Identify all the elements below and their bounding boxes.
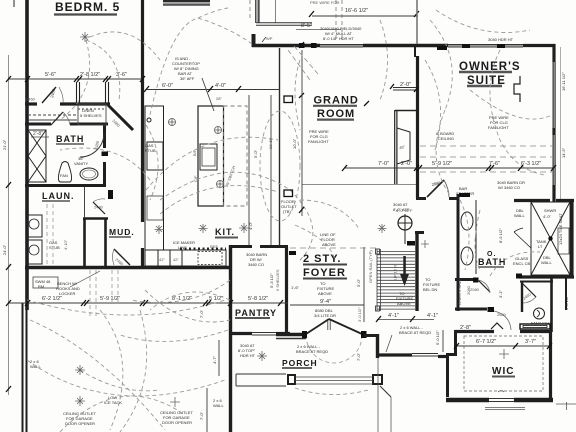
svg-text:9'-4": 9'-4" <box>320 299 331 305</box>
dim: kitchen top <box>146 89 280 91</box>
svg-text:6'-0": 6'-0" <box>162 83 173 89</box>
svg-text:ENCL CB: ENCL CB <box>513 261 531 266</box>
svg-text:42": 42" <box>159 257 165 262</box>
wall: bath laundry divider <box>25 184 106 187</box>
mud dashed extension verticals <box>47 204 118 316</box>
owners shower <box>514 202 570 275</box>
wall: owners suite top right <box>523 44 555 47</box>
svg-text:3040 HDR HT: 3040 HDR HT <box>488 37 514 42</box>
svg-text:HDR HT: HDR HT <box>240 353 256 358</box>
svg-text:2080: 2080 <box>470 287 480 292</box>
extra kitchen arcs <box>146 125 278 214</box>
svg-text:24'-0": 24'-0" <box>2 244 7 255</box>
svg-text:4'-10": 4'-10" <box>63 239 68 250</box>
dim: top area <box>312 15 418 17</box>
svg-text:3'-0 1/2": 3'-0 1/2" <box>564 295 569 310</box>
svg-text:4'-7": 4'-7" <box>212 355 217 364</box>
svg-text:2'-8": 2'-8" <box>460 325 471 331</box>
wall: pantry foyer divider <box>279 48 281 246</box>
svg-text:WALL: WALL <box>213 403 225 408</box>
svg-text:WALL: WALL <box>541 260 553 265</box>
fireplace media wall <box>394 110 396 184</box>
kitchen range counter left <box>145 106 164 250</box>
svg-text:3'-7": 3'-7" <box>525 339 536 345</box>
backsplash tick row kitchen <box>180 248 226 250</box>
small window blocks SSS <box>108 44 550 329</box>
svg-text:4'-1": 4'-1" <box>427 313 438 319</box>
svg-text:5 SHELVES: 5 SHELVES <box>275 269 280 291</box>
stoop below wic door <box>485 407 525 409</box>
bath fixtures: shower <box>28 130 46 182</box>
wall: bedroom bottom <box>25 102 37 105</box>
svg-text:WALL: WALL <box>514 213 526 218</box>
svg-text:(TB): (TB) <box>283 209 291 214</box>
dashed roof diagonals <box>288 46 318 80</box>
porch columns and steps <box>236 358 391 432</box>
svg-text:5'-9 1/2": 5'-9 1/2" <box>100 296 120 302</box>
svg-text:3/4 LITE DR: 3/4 LITE DR <box>314 313 336 318</box>
linen closet top <box>28 104 106 125</box>
owners bath vanity <box>461 200 476 274</box>
svg-text:WIC: WIC <box>492 366 514 377</box>
wall: grand room top with windows <box>285 44 320 48</box>
svg-text:DOOR OPENER: DOOR OPENER <box>162 420 192 425</box>
electrical symbols kitchen <box>169 119 224 188</box>
svg-text:GRAND: GRAND <box>314 95 359 107</box>
svg-text:8'-0 1/8" HDR HT: 8'-0 1/8" HDR HT <box>323 36 354 41</box>
dim: owners suite <box>345 167 554 169</box>
wall: right exterior bath block <box>570 199 573 277</box>
swm box <box>33 277 58 288</box>
svg-text:8'-5": 8'-5" <box>301 23 312 29</box>
svg-text:FAN/LIGHT: FAN/LIGHT <box>531 321 552 326</box>
svg-text:ABOVE: ABOVE <box>322 242 336 247</box>
svg-text:3'-6": 3'-6" <box>116 72 127 78</box>
svg-text:8'-0" AFF: 8'-0" AFF <box>393 207 410 212</box>
svg-text:STUB: STUB <box>145 148 156 153</box>
svg-text:2'-0": 2'-0" <box>401 161 412 167</box>
svg-text:W/ 3460 CO: W/ 3460 CO <box>498 185 520 190</box>
wic dashed shelves <box>464 336 543 391</box>
svg-text:5'-8 1/2": 5'-8 1/2" <box>248 296 268 302</box>
svg-text:PORCH: PORCH <box>282 358 318 368</box>
svg-text:2'-8 1/2": 2'-8 1/2" <box>80 72 100 78</box>
suite niche <box>514 76 520 102</box>
laundry door <box>93 202 105 214</box>
wall: owners bath left <box>457 194 460 311</box>
bath entry door arc <box>80 133 104 157</box>
stairs up arrow <box>400 256 409 286</box>
svg-text:2'-0": 2'-0" <box>400 82 411 88</box>
dim: wic <box>457 345 550 347</box>
svg-text:7'-0": 7'-0" <box>378 161 389 167</box>
door: front double <box>306 319 329 334</box>
wall: grand owners divider <box>416 56 419 198</box>
dim: foyer <box>290 304 364 306</box>
svg-text:36" AFF: 36" AFF <box>180 76 195 81</box>
svg-text:VANITY: VANITY <box>74 161 88 166</box>
wall: mud closet verticals <box>83 218 86 266</box>
svg-text:2460: 2460 <box>26 97 36 102</box>
svg-text:4'-0": 4'-0" <box>248 221 253 230</box>
svg-text:STUB: STUB <box>49 245 60 250</box>
wall: garage 2x6 left <box>22 303 24 432</box>
svg-text:42": 42" <box>173 257 179 262</box>
svg-text:FAN/LIGHT: FAN/LIGHT <box>488 125 509 130</box>
owners bath fan circle <box>534 308 545 319</box>
svg-text:SHWR: SHWR <box>544 208 556 213</box>
sparkle kit corner <box>239 223 249 233</box>
svg-text:FOYER: FOYER <box>303 267 346 279</box>
floor outlet boxes <box>284 96 293 103</box>
svg-text:MUD.: MUD. <box>109 227 135 237</box>
svg-text:5 SHELVES: 5 SHELVES <box>80 113 102 118</box>
grand room bottom line <box>302 184 417 186</box>
svg-text:FAN/LIGHT: FAN/LIGHT <box>308 139 329 144</box>
cased opening frames below bedroom <box>77 82 109 103</box>
window: owners suite top <box>448 44 523 46</box>
toilet room walls <box>520 281 553 283</box>
svg-text:4'-0": 4'-0" <box>543 214 552 219</box>
svg-text:5'-0 1/2": 5'-0 1/2" <box>435 330 440 345</box>
wall: right exterior owners suite <box>552 44 555 62</box>
sparkle symbols <box>75 32 509 407</box>
svg-text:BATH: BATH <box>478 257 506 267</box>
door jamb blocks hall <box>516 274 522 279</box>
wall: wic right <box>549 330 552 399</box>
bath hall doors bottom right <box>478 280 490 293</box>
svg-text:ABOVE: ABOVE <box>397 301 411 306</box>
diagonal hall wall <box>108 105 133 130</box>
wall: kitchen foyer garage divider <box>229 245 232 432</box>
wall: porch front <box>276 333 306 336</box>
svg-text:7'-0": 7'-0" <box>199 309 204 318</box>
svg-text:5'-0": 5'-0" <box>253 149 258 158</box>
nook bay window band <box>255 0 257 23</box>
text: 3040 below fireplace <box>393 202 410 212</box>
foyer ceiling light <box>398 216 412 230</box>
bath toilet <box>58 162 71 183</box>
wall: porch right jog <box>376 334 379 358</box>
dim: mud kit <box>8 302 288 304</box>
svg-text:5'-3 1/2": 5'-3 1/2" <box>269 273 274 288</box>
long dashed ceiling lines owners suite <box>290 146 553 248</box>
svg-text:10'-0": 10'-0" <box>292 138 297 149</box>
dim texts <box>42 8 541 345</box>
svg-text:4'-1": 4'-1" <box>388 313 399 319</box>
svg-text:6'-7 1/2": 6'-7 1/2" <box>476 339 496 345</box>
svg-text:28": 28" <box>216 96 222 101</box>
left extension dim line <box>8 55 10 395</box>
svg-text:BRACE AT REQD: BRACE AT REQD <box>296 349 328 354</box>
dim: grand left <box>301 50 303 216</box>
kitchen counters top <box>145 250 226 266</box>
svg-text:2080: 2080 <box>466 285 471 295</box>
wall: foyer stairs right <box>415 232 418 311</box>
svg-text:1'-6": 1'-6" <box>291 285 300 290</box>
wall: wic left <box>454 330 457 353</box>
bath sink <box>80 168 98 180</box>
wall: dining top (left of porch) <box>229 332 252 335</box>
garage dashed arcs bottom <box>100 20 388 430</box>
wall: pantry right <box>285 247 288 333</box>
svg-text:LOCKER: LOCKER <box>59 291 76 296</box>
linen closet walls <box>455 278 473 281</box>
wall: wic bottom <box>446 398 489 402</box>
wall: bath bottom / shower <box>519 275 574 278</box>
svg-text:7'-0": 7'-0" <box>199 411 204 420</box>
top edge vertical stubs <box>14 0 417 44</box>
svg-text:4'-0": 4'-0" <box>215 83 226 89</box>
wall: left exterior <box>25 0 29 310</box>
wall: bath wic link right <box>550 277 553 332</box>
svg-text:2'-8": 2'-8" <box>33 131 43 137</box>
svg-text:5'-0": 5'-0" <box>356 278 361 287</box>
mud door <box>114 249 130 265</box>
wall: bedroom right vertical <box>141 0 144 222</box>
door: 2880 owners <box>427 180 444 197</box>
stairs <box>376 249 435 320</box>
window blocks grand top wall <box>299 43 305 48</box>
svg-text:14'-5": 14'-5" <box>561 147 566 158</box>
dim: bedroom bottom <box>8 78 143 80</box>
wall: nook corner L <box>252 34 256 47</box>
wall: bath right <box>103 124 106 148</box>
room labels <box>42 0 521 377</box>
svg-text:BRACE AT REQD: BRACE AT REQD <box>399 330 431 335</box>
right margin dim line <box>560 47 562 200</box>
dim: garage bottom <box>206 388 208 432</box>
svg-text:8'-5 1/2": 8'-5 1/2" <box>498 228 503 243</box>
svg-text:ROOM: ROOM <box>317 108 355 120</box>
svg-text:3'-1": 3'-1" <box>498 289 503 298</box>
svg-text:UP 16 R: UP 16 R <box>393 265 398 280</box>
svg-text:BEDRM. 5: BEDRM. 5 <box>55 0 120 14</box>
svg-text:7'-0": 7'-0" <box>356 352 361 361</box>
hall door 2480 <box>42 87 56 103</box>
label: cropped top center <box>163 0 210 2</box>
kitchen island <box>198 106 247 206</box>
opening above fireplace <box>393 87 417 89</box>
wall: laundry mud bottom <box>25 266 230 269</box>
svg-text:21'-5": 21'-5" <box>268 138 273 149</box>
wall: wic top <box>455 330 494 333</box>
svg-text:OPEN RAIL (TYP): OPEN RAIL (TYP) <box>368 250 373 283</box>
svg-text:2 STY.: 2 STY. <box>303 253 341 265</box>
svg-text:FAN: FAN <box>60 173 68 178</box>
svg-text:BEL DN: BEL DN <box>423 287 437 292</box>
svg-text:5'-9 1/2": 5'-9 1/2" <box>432 161 452 167</box>
wall: kitchen top (pantry) <box>230 245 252 248</box>
svg-text:CEILING: CEILING <box>438 136 454 141</box>
svg-text:PANTRY: PANTRY <box>235 308 277 318</box>
svg-text:21'-0": 21'-0" <box>2 139 7 150</box>
svg-text:LAUN.: LAUN. <box>42 191 75 201</box>
svg-text:DOOR OPENER: DOOR OPENER <box>65 421 95 426</box>
small annotation text blocks (drawn as tiny lines of text) <box>172 56 200 81</box>
leader island note <box>202 78 214 111</box>
foyer dashed ellipse <box>260 111 300 221</box>
svg-text:ABOVE: ABOVE <box>318 291 332 296</box>
svg-text:3460 CO: 3460 CO <box>248 262 264 267</box>
svg-text:3'-0 1/2": 3'-0 1/2" <box>357 307 362 322</box>
svg-text:12x24 TILE SEAT: 12x24 TILE SEAT <box>558 213 563 245</box>
svg-text:LT: LT <box>538 244 543 249</box>
wall: bath top <box>25 123 51 126</box>
svg-text:WP: WP <box>266 36 273 41</box>
svg-text:KIT.: KIT. <box>215 227 235 237</box>
bath door arc <box>51 112 63 125</box>
svg-text:6'-3 1/2": 6'-3 1/2" <box>521 161 541 167</box>
wall: owners suite bottom <box>416 197 426 200</box>
svg-text:PRE WIRE FOR: PRE WIRE FOR <box>310 0 339 5</box>
wall: bath top right block <box>514 199 550 202</box>
svg-text:16'-11 1/2": 16'-11 1/2" <box>561 72 566 91</box>
laundry washer dryer <box>26 215 42 264</box>
svg-text:6'-2 1/2": 6'-2 1/2" <box>42 296 62 302</box>
svg-text:16'-6 1/2": 16'-6 1/2" <box>345 8 368 14</box>
svg-text:BATH: BATH <box>56 134 84 144</box>
rotated small texts <box>2 72 569 420</box>
wic entry door <box>494 311 511 330</box>
svg-text:5'-6": 5'-6" <box>45 72 56 78</box>
